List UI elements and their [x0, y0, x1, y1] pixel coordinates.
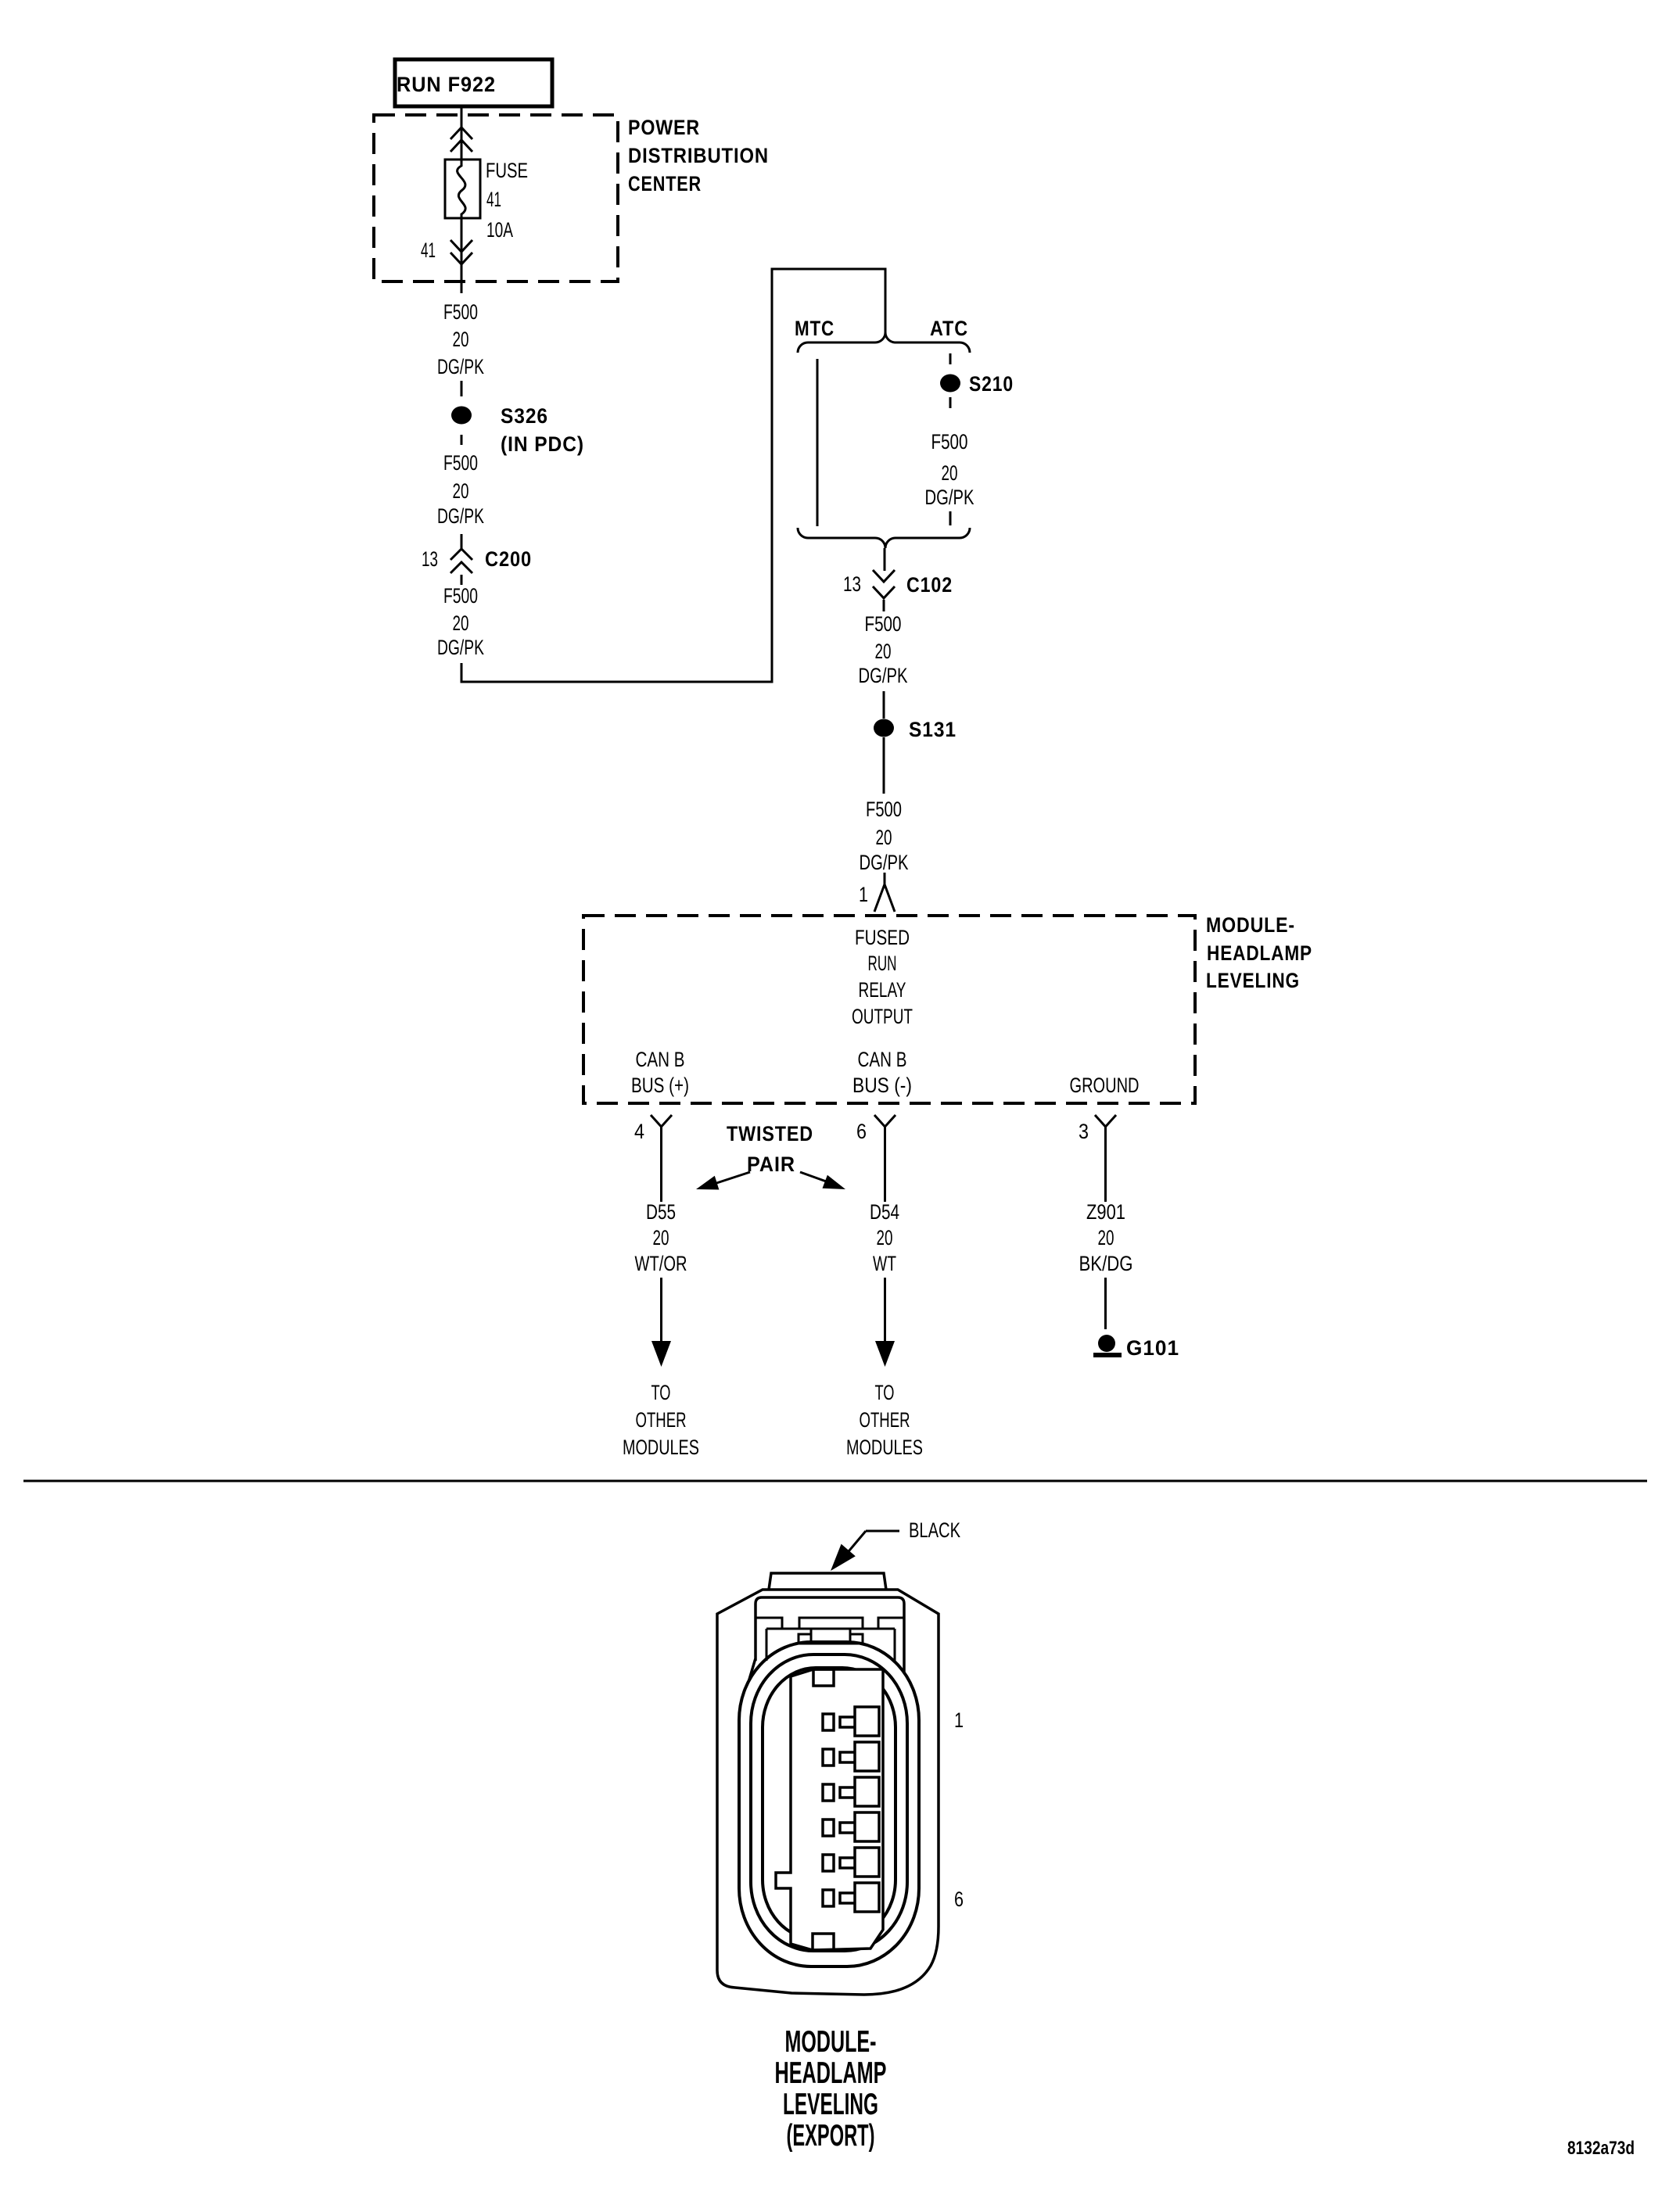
svg-text:MODULES: MODULES: [623, 1436, 699, 1459]
svg-text:20: 20: [653, 1226, 669, 1249]
label MODULE- HEADLAMP LEVELING: [1206, 913, 1312, 992]
label TWISTED PAIR: [727, 1122, 813, 1176]
svg-text:MODULES: MODULES: [846, 1436, 923, 1459]
wire above S131: [883, 691, 885, 719]
wire stub into module pin 1: [884, 873, 886, 884]
separator line: [23, 1480, 1647, 1482]
svg-text:20: 20: [876, 826, 892, 849]
svg-text:CENTER: CENTER: [628, 172, 702, 195]
svg-text:ATC: ATC: [930, 317, 968, 340]
ground symbol G101: [1093, 1335, 1122, 1357]
wire label F500 20 DG/PK (above module): [860, 798, 909, 874]
svg-text:FUSED: FUSED: [855, 926, 910, 949]
svg-text:DG/PK: DG/PK: [437, 355, 484, 378]
wire to ground: [1104, 1278, 1107, 1329]
keyway top index notch: [813, 1669, 834, 1686]
svg-text:1: 1: [859, 883, 868, 906]
keyway bottom index notch: [813, 1934, 834, 1950]
label TO OTHER MODULES (middle): [846, 1381, 923, 1459]
svg-text:F500: F500: [443, 584, 478, 608]
svg-text:FUSE: FUSE: [486, 159, 528, 182]
node CAN B BUS (+): [631, 1048, 689, 1097]
svg-text:S210: S210: [969, 372, 1014, 396]
terminal pin 3: [823, 1777, 879, 1806]
wire stub below C200: [461, 575, 463, 585]
svg-text:C200: C200: [485, 547, 532, 571]
svg-text:BUS (+): BUS (+): [631, 1074, 689, 1097]
svg-text:OTHER: OTHER: [860, 1408, 910, 1432]
splice S326: [451, 407, 472, 425]
svg-text:LEVELING: LEVELING: [783, 2088, 878, 2121]
wire above C200: [461, 534, 463, 550]
fuse value labels FUSE 41 10A: [486, 159, 528, 242]
terminal pin 2: [823, 1742, 879, 1771]
wire label F500 20 DG/PK (ATC branch): [925, 430, 974, 509]
svg-text:HEADLAMP: HEADLAMP: [1207, 941, 1312, 965]
svg-text:13: 13: [422, 547, 438, 571]
label MODULE- HEADLAMP LEVELING (EXPORT): [775, 2025, 887, 2153]
arrow to other modules (left): [651, 1278, 671, 1367]
leader line from BLACK to connector: [831, 1531, 899, 1571]
svg-text:41: 41: [421, 238, 436, 262]
wire stub below S210: [949, 397, 952, 408]
wire stub below splice S326: [461, 435, 463, 445]
fuse block label RUN F922: [395, 59, 552, 106]
wire stub ATC branch above S210: [949, 353, 952, 364]
module pin 6 connector symbol: [874, 1115, 896, 1145]
connector chevrons (up) at PDC input: [450, 127, 472, 152]
svg-text:TO: TO: [875, 1381, 895, 1404]
svg-text:BK/DG: BK/DG: [1079, 1252, 1133, 1275]
lower brace joining branches: [798, 528, 970, 548]
svg-text:DISTRIBUTION: DISTRIBUTION: [628, 144, 769, 167]
terminal pin 4: [823, 1812, 879, 1841]
wire from fuse to PDC exit: [461, 218, 463, 293]
terminal pin 5: [823, 1848, 879, 1877]
wire from pin 6: [884, 1145, 886, 1202]
svg-text:BUS (-): BUS (-): [852, 1074, 912, 1097]
svg-text:20: 20: [1098, 1226, 1114, 1249]
svg-text:DG/PK: DG/PK: [859, 664, 908, 687]
terminal pin 6: [823, 1883, 879, 1912]
svg-text:D55: D55: [646, 1200, 676, 1224]
svg-text:S131: S131: [909, 718, 957, 741]
connector chevrons (down) at PDC output: [450, 240, 472, 264]
module headlamp leveling dashed box: [583, 916, 1195, 1103]
svg-text:F500: F500: [865, 612, 902, 636]
svg-text:6: 6: [856, 1120, 867, 1143]
svg-text:POWER: POWER: [628, 116, 700, 139]
svg-text:20: 20: [942, 461, 958, 485]
svg-text:RUN: RUN: [868, 952, 897, 975]
svg-text:DG/PK: DG/PK: [860, 851, 909, 874]
wire from C200 down, right and up to junction: [461, 269, 885, 682]
svg-text:C102: C102: [906, 573, 953, 597]
svg-text:41: 41: [486, 188, 501, 211]
wire label Z901 20 BK/DG: [1079, 1200, 1133, 1275]
svg-text:MODULE-: MODULE-: [785, 2025, 877, 2059]
svg-text:OUTPUT: OUTPUT: [852, 1005, 913, 1028]
wire from brace to C102: [884, 548, 886, 571]
svg-text:20: 20: [877, 1226, 893, 1249]
svg-text:D54: D54: [870, 1200, 899, 1224]
svg-text:F500: F500: [866, 798, 902, 821]
label S326 (IN PDC): [501, 404, 584, 456]
svg-text:MODULE-: MODULE-: [1206, 913, 1295, 937]
connector outer body: [717, 1590, 939, 1995]
svg-text:CAN B: CAN B: [858, 1048, 907, 1071]
svg-text:RUN F922: RUN F922: [397, 73, 496, 96]
svg-text:PAIR: PAIR: [747, 1153, 795, 1176]
seal ring inner: [763, 1668, 896, 1939]
svg-text:13: 13: [843, 572, 861, 596]
node FUSED RUN RELAY OUTPUT: [852, 926, 913, 1028]
in-line connector C200 (chevrons up): [450, 549, 472, 573]
arrow to other modules (middle): [875, 1278, 895, 1367]
wire from RUN F922 into PDC: [461, 106, 463, 160]
wire label F500 20 DG/PK (below PDC): [437, 300, 484, 378]
svg-text:G101: G101: [1126, 1336, 1179, 1360]
svg-text:TWISTED: TWISTED: [727, 1122, 813, 1145]
connector collar: [745, 1597, 904, 1707]
svg-text:DG/PK: DG/PK: [437, 504, 484, 528]
svg-text:20: 20: [453, 479, 469, 503]
wire label F500 20 DG/PK (below S326): [437, 451, 484, 528]
fuse 41 10A: [445, 160, 480, 218]
svg-text:TO: TO: [651, 1381, 671, 1404]
svg-text:20: 20: [453, 611, 469, 635]
wire below S131: [883, 737, 885, 794]
module pin 1 connector symbol: [874, 884, 895, 912]
upper brace over MTC/ATC branches: [798, 332, 970, 353]
svg-text:1: 1: [954, 1708, 964, 1732]
svg-text:MTC: MTC: [795, 317, 834, 340]
twisted pair right arrow: [800, 1172, 845, 1189]
splice S210: [940, 375, 960, 393]
label TO OTHER MODULES (left): [623, 1381, 699, 1459]
node CAN B BUS (-): [852, 1048, 912, 1097]
svg-text:F500: F500: [931, 430, 968, 454]
wire stub above splice S326: [461, 381, 463, 396]
svg-text:WT/OR: WT/OR: [635, 1252, 687, 1275]
twisted pair left arrow: [696, 1172, 750, 1190]
terminal keyway: [776, 1669, 883, 1950]
svg-text:CAN B: CAN B: [636, 1048, 685, 1071]
svg-text:LEVELING: LEVELING: [1206, 969, 1300, 992]
svg-text:(IN PDC): (IN PDC): [501, 432, 584, 456]
svg-text:F500: F500: [443, 451, 478, 475]
wire MTC branch: [817, 359, 819, 526]
svg-text:(EXPORT): (EXPORT): [787, 2119, 875, 2153]
splice S131: [874, 719, 894, 737]
wire label D54 20 WT: [870, 1200, 899, 1275]
wire label D55 20 WT/OR: [635, 1200, 687, 1275]
wire stub below C102: [883, 600, 885, 611]
collar latch details: [756, 1618, 904, 1661]
seal ring middle: [751, 1655, 907, 1951]
svg-text:DG/PK: DG/PK: [925, 486, 974, 509]
svg-text:BLACK: BLACK: [909, 1518, 960, 1542]
svg-text:6: 6: [954, 1888, 964, 1911]
wire from pin 3: [1104, 1145, 1107, 1202]
svg-text:DG/PK: DG/PK: [437, 636, 484, 659]
svg-text:S326: S326: [501, 404, 548, 428]
wire label F500 20 DG/PK (below C200): [437, 584, 484, 659]
power distribution center dashed box: [374, 115, 618, 281]
seal ring outer: [739, 1642, 919, 1966]
module pin 3 connector symbol: [1095, 1115, 1116, 1145]
wire from pin 4: [660, 1145, 662, 1202]
svg-text:WT: WT: [873, 1252, 896, 1275]
terminal pin 1: [823, 1707, 879, 1736]
module pin 4 connector symbol: [651, 1115, 672, 1145]
svg-text:10A: 10A: [486, 218, 513, 242]
connector top cap: [769, 1573, 886, 1590]
wire label F500 20 DG/PK (below C102): [859, 612, 908, 687]
svg-text:HEADLAMP: HEADLAMP: [775, 2056, 887, 2090]
svg-text:Z901: Z901: [1086, 1200, 1125, 1224]
svg-text:20: 20: [875, 640, 892, 663]
svg-text:GROUND: GROUND: [1070, 1074, 1140, 1097]
svg-text:RELAY: RELAY: [859, 978, 906, 1002]
in-line connector C102 (chevrons down): [873, 570, 895, 598]
wire stub ATC branch to lower brace: [949, 511, 952, 525]
svg-text:4: 4: [634, 1120, 644, 1143]
svg-text:F500: F500: [443, 300, 478, 324]
svg-text:OTHER: OTHER: [636, 1408, 687, 1432]
svg-text:3: 3: [1079, 1120, 1089, 1143]
label POWER DISTRIBUTION CENTER: [628, 116, 769, 195]
svg-text:20: 20: [453, 328, 469, 351]
svg-text:8132a73d: 8132a73d: [1567, 2138, 1635, 2159]
